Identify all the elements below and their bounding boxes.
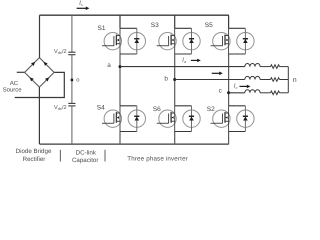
transistor S5 MOSFET circle — [213, 32, 230, 49]
diode S5 freewheel symbol — [244, 28, 246, 54]
divider tick 2 — [104, 150, 106, 162]
svg-text:c: c — [219, 88, 223, 95]
divider tick 1 — [59, 150, 61, 162]
svg-text:S1: S1 — [98, 25, 106, 32]
svg-text:S5: S5 — [205, 22, 213, 29]
svg-text:o: o — [76, 77, 79, 83]
bridge diode D4 arrow — [45, 77, 49, 81]
svg-text:Capacitor: Capacitor — [72, 157, 98, 164]
resistor phase c — [271, 91, 280, 95]
arrow Ib — [212, 72, 223, 76]
svg-text:S3: S3 — [151, 22, 159, 29]
transistor S4 MOSFET circle — [104, 110, 121, 127]
svg-text:Ia: Ia — [181, 58, 186, 65]
wire bridge bottom vertex to DC- rail — [38, 87, 40, 144]
transistor S3 MOSFET circle — [159, 32, 176, 49]
svg-text:Source: Source — [3, 87, 23, 94]
transistor S2 MOSFET circle — [213, 110, 230, 127]
wire phase b line to load — [175, 79, 245, 81]
wire rail to C1 — [71, 15, 73, 52]
wire phase c inductor to resistor — [260, 92, 270, 94]
wire phase a inductor to resistor — [260, 66, 270, 68]
svg-text:S2: S2 — [207, 106, 215, 113]
diode bridge rectifier diamond — [25, 58, 54, 88]
svg-text:S4: S4 — [97, 105, 105, 112]
svg-text:Vdc/2: Vdc/2 — [54, 104, 67, 111]
transistor S1 MOSFET symbol — [102, 28, 120, 54]
switch S2 bottom stub wire — [229, 131, 246, 133]
diode S3 freewheel symbol — [191, 28, 193, 54]
transistor S1 MOSFET circle — [104, 32, 121, 49]
wire phase c line to load — [229, 92, 245, 94]
inductor phase b — [245, 76, 260, 79]
svg-text:AC: AC — [10, 80, 19, 87]
wire AC terminal 1 — [17, 71, 25, 73]
bridge diode D2 arrow — [44, 62, 48, 66]
diode S1 freewheel symbol — [136, 28, 138, 54]
wire DC+ top rail — [40, 14, 229, 16]
svg-text:Diode Bridge: Diode Bridge — [16, 148, 52, 155]
wire phase a line to load — [120, 66, 245, 68]
diode S2 freewheel circle — [237, 110, 254, 127]
bridge diode D3 arrow — [30, 77, 34, 81]
node c junction dot — [227, 91, 230, 94]
wire C1 to C2 — [71, 55, 73, 103]
transistor S5 MOSFET symbol — [211, 28, 229, 54]
wire leg 1 rail to upper switch — [119, 15, 121, 28]
switch S2 top stub wire — [229, 105, 246, 107]
capacitor C2 (Vdc/2) — [68, 103, 75, 106]
transistor S6 MOSFET circle — [159, 110, 176, 127]
switch S4 bottom stub wire — [120, 131, 137, 133]
wire leg 1 lower switch to bottom rail — [119, 132, 121, 145]
wire leg 2 lower switch to bottom rail — [174, 132, 176, 145]
switch S4 top stub wire — [120, 105, 137, 107]
arrow Ia — [191, 59, 201, 63]
wire leg 2 rail to upper switch — [174, 15, 176, 28]
diode S2 freewheel symbol — [244, 106, 246, 132]
diode S5 freewheel circle — [237, 32, 254, 49]
svg-text:a: a — [107, 62, 111, 69]
arrow Is current direction — [77, 7, 90, 11]
switch S5 top stub wire — [229, 27, 246, 29]
transistor S3 MOSFET symbol — [157, 28, 175, 54]
wire leg 2 upper switch to lower switch — [174, 54, 176, 106]
inductor phase c — [245, 90, 260, 93]
svg-text:Vdc/2: Vdc/2 — [54, 48, 67, 55]
wire bridge top vertex to DC+ rail — [39, 15, 41, 57]
diode S3 freewheel circle — [183, 32, 200, 49]
svg-text:Three phase inverter: Three phase inverter — [127, 155, 188, 162]
switch S5 bottom stub wire — [229, 53, 246, 55]
wire leg 3 lower switch to bottom rail — [228, 132, 230, 145]
node b junction dot — [173, 78, 176, 81]
svg-text:S6: S6 — [153, 106, 161, 113]
wire phase b inductor to resistor — [260, 79, 270, 81]
transistor S4 MOSFET symbol — [102, 106, 120, 132]
node o midpoint — [71, 79, 74, 82]
arrow Ic — [240, 85, 251, 89]
svg-text:n: n — [293, 77, 297, 84]
capacitor C1 (Vdc/2) — [68, 52, 75, 55]
diode S4 freewheel circle — [128, 110, 145, 127]
svg-text:DC-link: DC-link — [76, 149, 97, 156]
wire leg 3 upper switch to lower switch — [228, 54, 230, 106]
switch S1 top stub wire — [120, 27, 137, 29]
diode S1 freewheel circle — [128, 32, 145, 49]
transistor S6 MOSFET symbol — [157, 106, 175, 132]
diode S6 freewheel symbol — [191, 106, 193, 132]
bridge diode D1 arrow — [31, 62, 35, 66]
wire phase b resistor to neutral — [280, 79, 289, 81]
wire leg 1 upper switch to lower switch — [119, 54, 121, 106]
wire phase c resistor to neutral — [280, 92, 289, 94]
diode S4 freewheel symbol — [136, 106, 138, 132]
resistor phase a — [271, 65, 280, 69]
switch S6 bottom stub wire — [175, 131, 192, 133]
resistor phase b — [271, 78, 280, 82]
switch S6 top stub wire — [175, 105, 192, 107]
switch S3 top stub wire — [175, 27, 192, 29]
svg-text:Is: Is — [78, 1, 83, 8]
wire neutral vertical — [287, 67, 289, 93]
wire leg 3 rail to upper switch — [228, 15, 230, 28]
switch S1 bottom stub wire — [120, 53, 137, 55]
wire C2 to bottom rail — [71, 106, 73, 144]
transistor S2 MOSFET symbol — [211, 106, 229, 132]
svg-text:b: b — [164, 75, 168, 82]
inductor phase a — [245, 63, 260, 66]
diode S6 freewheel circle — [183, 110, 200, 127]
wire AC terminal 2 to bridge right vertex — [15, 72, 65, 97]
wire phase a resistor to neutral — [280, 66, 289, 68]
switch S3 bottom stub wire — [175, 53, 192, 55]
wire DC- bottom rail — [40, 143, 229, 145]
node a junction dot — [119, 65, 122, 68]
svg-text:Rectifier: Rectifier — [23, 156, 46, 163]
svg-text:Ic: Ic — [233, 83, 238, 90]
